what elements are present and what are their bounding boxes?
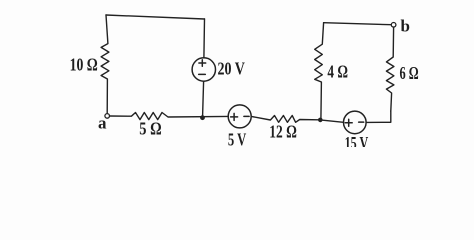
svg-text:a: a [98,114,107,133]
svg-text:b: b [401,17,410,36]
svg-text:5 Ω: 5 Ω [139,118,161,138]
svg-text:4 Ω: 4 Ω [327,61,348,81]
svg-text:12 Ω: 12 Ω [269,122,297,142]
svg-text:5 V: 5 V [228,129,247,147]
svg-text:6 Ω: 6 Ω [400,63,419,83]
svg-text:20 V: 20 V [218,58,246,78]
svg-text:10 Ω: 10 Ω [70,54,98,74]
svg-text:15 V: 15 V [345,133,369,147]
